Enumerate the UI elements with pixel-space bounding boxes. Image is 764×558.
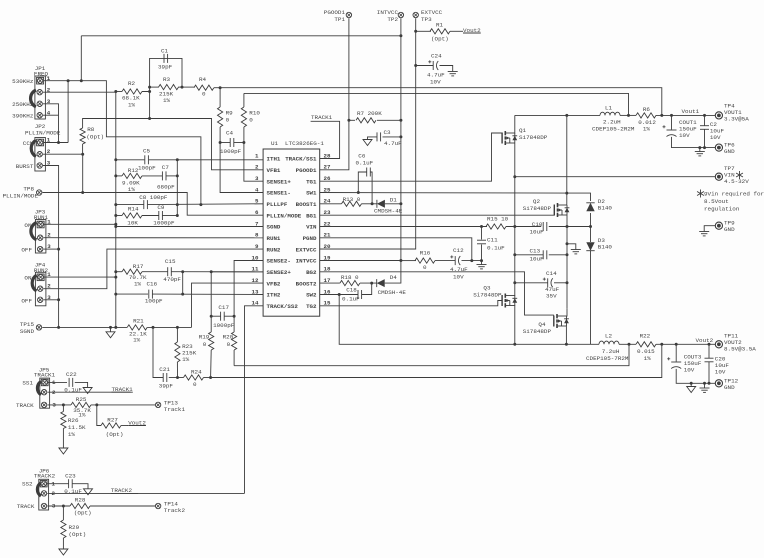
svg-text:C21: C21 [159, 366, 170, 373]
sense wire 1 channel 2 [234, 344, 629, 365]
svg-text:R1: R1 [436, 22, 444, 29]
svg-text:GND: GND [724, 226, 735, 233]
svg-text:TP8: TP8 [23, 186, 34, 193]
svg-text:100pF: 100pF [145, 298, 163, 305]
junction R9 C4 left [219, 141, 222, 144]
junction R2 R3 C1 lower [148, 90, 151, 93]
svg-text:TRACK/SS2: TRACK/SS2 [267, 303, 299, 310]
wire JP6 pin3 row left [47, 505, 70, 507]
wire ground stem at output 1 [699, 148, 701, 152]
JP4 pin 3 circle [38, 297, 43, 302]
svg-text:0: 0 [202, 91, 206, 98]
wire JP3 pin3 off [44, 248, 59, 250]
wire C20 bottom [708, 362, 710, 383]
JP6 shunt bar pins 1-2 [37, 483, 41, 496]
wire C11 top [481, 227, 483, 240]
wire JP1 pin1 row [44, 81, 201, 204]
resistor R17 [122, 269, 142, 274]
wire SGND pin 7 row [116, 226, 263, 228]
svg-text:CCM: CCM [23, 140, 34, 147]
JP2 pin 2 circle [37, 152, 42, 157]
wire R27 right [121, 425, 128, 427]
wire C4 SENSE1+ down [244, 143, 263, 182]
wire SW2 down from pin16 [339, 295, 599, 345]
wire Q4 drain down [565, 326, 567, 344]
wire JP1 pin2 row [43, 91, 116, 93]
junction output2 gnd bar [703, 382, 706, 385]
junction rail C16 [114, 293, 117, 296]
JP2 pin 3 circle [37, 163, 42, 168]
wire SGND rail [115, 92, 117, 328]
wire R23 bottom [176, 362, 178, 378]
svg-text:C9: C9 [157, 204, 165, 211]
svg-text:R16: R16 [420, 250, 431, 257]
wire R17 to C15 [142, 271, 168, 273]
wire TG1 pin 26 to Q1 gate [320, 133, 503, 181]
wire C7 right [166, 175, 177, 177]
wire JP5 pin3 row right [91, 404, 155, 406]
ground at C24 [448, 71, 458, 73]
JP3 pin 3 circle [38, 246, 43, 251]
wire Q3 source down [514, 306, 516, 345]
junction C18 R18 D4 [370, 282, 373, 285]
wire JP2 pin1 row [44, 142, 69, 144]
junction D1 INTVCC [399, 202, 402, 205]
wire JP2 pin2 down to TP8 row [82, 154, 84, 192]
svg-text:R13 0: R13 0 [343, 196, 361, 203]
resistor R22 [636, 342, 656, 347]
test point TP11 VOUT2 [715, 341, 722, 348]
svg-text:PLLIN/MODE: PLLIN/MODE [25, 130, 61, 137]
wire R9 bottom to C4 [219, 127, 221, 143]
svg-text:35V: 35V [546, 293, 557, 300]
wire JP5 pin3 row left [48, 404, 72, 406]
junction C11 bottom ground [480, 259, 483, 262]
svg-text:0: 0 [227, 341, 231, 348]
capacitor C3 [376, 132, 378, 141]
svg-text:68.1K: 68.1K [122, 95, 140, 102]
resistor R18 [340, 281, 360, 286]
junction rail C5 [114, 158, 117, 161]
junction TP1 R7 [347, 119, 350, 122]
svg-text:C23: C23 [65, 472, 76, 479]
svg-text:R8: R8 [87, 126, 95, 133]
junction R4 bus R9 [219, 86, 222, 89]
svg-text:PGND: PGND [303, 235, 317, 242]
capacitor C11 [477, 239, 486, 241]
svg-text:0.1uF: 0.1uF [342, 296, 360, 303]
wire Q4 source up to PGND rail [566, 309, 569, 316]
wire C15 right to pin11 [171, 271, 263, 273]
junction R22 sense right [660, 343, 663, 346]
wire EXTVCC pin 20 row [320, 248, 416, 250]
svg-text:GND: GND [724, 384, 735, 391]
JP3 shunt bar pins 1-2 [31, 223, 37, 240]
svg-text:SS2: SS2 [22, 481, 33, 488]
wire SW2 to C18 [339, 294, 358, 296]
wire C13 right [549, 254, 567, 256]
wire Q2 source down [566, 215, 568, 227]
capacitor C14 [547, 278, 549, 287]
wire C23 to gnd [72, 484, 88, 489]
bus wire lower sense [244, 93, 629, 115]
svg-text:390KHz: 390KHz [12, 113, 34, 120]
svg-text:PLLLPF: PLLLPF [267, 201, 288, 208]
svg-text:1%: 1% [644, 355, 652, 362]
svg-text:B140: B140 [598, 244, 613, 251]
svg-text:SW1: SW1 [306, 190, 317, 197]
wire C3 right [383, 136, 401, 138]
svg-text:10V: 10V [679, 132, 690, 139]
junction rail R14 [114, 214, 117, 217]
resistor R25 [71, 402, 91, 407]
junction PGND C12 [470, 259, 473, 262]
wire TP8 row to pin 6 [43, 193, 264, 216]
svg-text:R26: R26 [68, 417, 79, 424]
wire SENSE2+ row [211, 272, 263, 316]
capacitor C16 [148, 290, 150, 299]
wire VIN rail to Q3 [514, 227, 516, 289]
wire C14 right [554, 282, 567, 284]
ground at PGND rail [571, 249, 581, 251]
junction COUT1 top [670, 114, 673, 117]
svg-text:SENSE2+: SENSE2+ [267, 269, 292, 276]
wire INTVCC pin 19 row [320, 260, 401, 262]
wire R15 to VIN rail [506, 226, 541, 228]
wire SW1 node to L1 [515, 114, 600, 116]
wire R19 to sense line 2 [210, 350, 213, 378]
wire JP4 pin2 to RUN2 [44, 249, 264, 289]
svg-text:9Vin required for: 9Vin required for [704, 191, 764, 198]
wire C14 left [515, 282, 548, 284]
svg-text:CDEP105-7R2M: CDEP105-7R2M [586, 355, 629, 362]
svg-text:1000pF: 1000pF [153, 220, 175, 227]
wire C17 right [224, 315, 234, 317]
svg-text:BG2: BG2 [306, 269, 317, 276]
capacitor C4 [229, 138, 231, 147]
wire JP4 pin1 row [44, 276, 116, 278]
junction R7 INTVCC [399, 119, 402, 122]
junction C20 top [708, 343, 711, 346]
svg-text:BG1: BG1 [306, 212, 317, 219]
JP5 pin 1 circle [42, 380, 47, 385]
wire C17 left [211, 315, 220, 317]
capacitor C13 [542, 250, 544, 259]
wire TP2 INTVCC vertical [400, 18, 402, 260]
test point TP1 PGOOD1 [346, 12, 351, 17]
svg-text:10V: 10V [684, 367, 695, 374]
ground at COUT1 [695, 151, 705, 153]
wire JP1pin2 to R2 [116, 91, 122, 93]
svg-text:ON: ON [24, 275, 32, 282]
svg-text:(Opt): (Opt) [86, 134, 104, 141]
diode D3 B140 [586, 242, 594, 250]
JP1 pin 3 circle [37, 101, 42, 106]
wire ITH1 row [116, 159, 145, 161]
svg-text:TG1: TG1 [306, 178, 317, 185]
wire INTVCC to JP1 area top run [81, 35, 401, 37]
svg-text:TRACK2: TRACK2 [111, 487, 133, 494]
wire C20 stem [708, 344, 710, 358]
wire C21 right [169, 377, 178, 379]
junction BURST JP3 off [57, 248, 60, 251]
capacitor C15 [167, 267, 169, 276]
svg-text:R22: R22 [640, 333, 651, 340]
resistor R10 [241, 107, 246, 127]
wire R13 to D1 [362, 203, 377, 205]
svg-text:1%: 1% [78, 412, 86, 419]
wire D4 to INTVCC row [385, 261, 401, 284]
wire R2 to junction [142, 87, 150, 91]
test point TP12 GND [715, 380, 722, 387]
junction C13 PGND [566, 253, 569, 256]
svg-text:C15: C15 [165, 258, 176, 265]
resistor R27 [101, 423, 121, 428]
svg-text:regulation: regulation [704, 206, 740, 213]
ground triangle at R29 [59, 549, 68, 555]
wire BG1 pin 23 to Q2 gate [320, 214, 555, 216]
junction Q3 SW2 row [513, 343, 516, 346]
svg-text:0: 0 [226, 117, 230, 124]
wire BG2 pin 18 to Q4 gate [320, 272, 554, 315]
svg-text:R18 0: R18 0 [341, 274, 359, 281]
connector JP4 RUN2 body [35, 272, 46, 306]
junction output1 gnd [698, 146, 701, 149]
junction VFB1 divider tap [148, 117, 151, 120]
wire R19 top lead [210, 316, 212, 332]
junction rail R2 JP1pin2 [114, 90, 117, 93]
JP5 pin 2 circle [41, 390, 46, 395]
svg-text:C11: C11 [487, 237, 498, 244]
svg-text:1: 1 [47, 218, 51, 225]
svg-text:0.015: 0.015 [637, 348, 655, 355]
resistor R12 [122, 173, 142, 178]
junction rail TP15 row [114, 326, 117, 329]
svg-text:Si7848DP: Si7848DP [473, 291, 502, 298]
svg-text:R7 200K: R7 200K [357, 110, 382, 117]
wire Q1 drain up to SW wire [514, 115, 516, 133]
wire L2 row right part [598, 343, 600, 345]
capacitor C7 [161, 171, 163, 180]
wire C6 to BOOST1 [370, 172, 372, 204]
JP1 shunt bar pins 2-3 [31, 90, 36, 107]
svg-text:R15 10: R15 10 [487, 216, 509, 223]
wire ground stem at C11 [481, 261, 483, 265]
svg-text:R24: R24 [191, 369, 202, 376]
resistor R29 [61, 520, 66, 538]
wire C2 stem [704, 115, 706, 125]
svg-text:PGOOD1: PGOOD1 [296, 167, 317, 174]
wire C8 right to pin5 [148, 203, 263, 206]
svg-text:ITH2: ITH2 [267, 292, 281, 299]
wire JP1 pin3 row [43, 104, 59, 143]
ground triangle at C22 [83, 388, 92, 394]
svg-text:4.7uF: 4.7uF [450, 266, 468, 273]
junction C17 R20 [233, 315, 236, 318]
capacitor COUT3 [671, 361, 681, 363]
wire C5 right to pin 1 [149, 159, 263, 161]
JP2 pin 1 circle [37, 140, 42, 145]
svg-text:TRACK: TRACK [16, 402, 34, 409]
wire JP2 pin2 row [43, 153, 83, 155]
svg-text:Track1: Track1 [164, 406, 186, 413]
junction SW2 C18 [338, 293, 341, 296]
junction VIN rail row [513, 225, 516, 228]
test point TP9 GND [715, 222, 722, 229]
wire INTVCC to R16 [401, 260, 416, 262]
wire R20 top lead [233, 316, 235, 332]
junction C2 ground row [703, 146, 706, 149]
resistor R20 [232, 332, 237, 350]
junction JP1 pin1 CCM tie [67, 79, 70, 82]
test point TP2 INTVCC [398, 12, 403, 17]
svg-text:CMDSH-4E: CMDSH-4E [378, 289, 407, 296]
connector JP6 TRACK2 body [39, 479, 49, 510]
svg-text:TP3: TP3 [421, 16, 432, 23]
wire JP3 pin1 row [44, 223, 116, 225]
wire R29 bottom [62, 538, 64, 549]
svg-text:R29: R29 [69, 524, 80, 531]
svg-text:ITH1: ITH1 [267, 156, 281, 163]
wire JP3 pin2 to RUN1 [44, 237, 264, 239]
wire R3 to R4 [178, 86, 194, 88]
junction INTVCC top wire [399, 34, 402, 37]
wire R17 row [116, 271, 122, 273]
junction sgnd tri [109, 326, 112, 329]
JP3 pin 1 square pad [37, 221, 44, 228]
junction C2 top [703, 114, 706, 117]
svg-text:OFF: OFF [21, 247, 32, 254]
junction D2 D3 row [589, 225, 592, 228]
inductor L2 [599, 341, 619, 344]
wire BOOST2 pin 17 row [320, 282, 340, 284]
svg-text:0: 0 [203, 341, 207, 348]
wire L2 to R22 [619, 343, 636, 345]
junction C9 comp rail [176, 214, 179, 217]
svg-text:R6: R6 [643, 106, 651, 113]
svg-text:R10: R10 [249, 110, 260, 117]
wire C18 to BOOST2 [362, 283, 372, 294]
wire comp rail 2 [182, 272, 184, 294]
transistor Q4 Si7848DP [554, 314, 569, 328]
junction TP8 row [81, 191, 84, 194]
svg-text:RUN1: RUN1 [267, 235, 281, 242]
connector JP1 FREQ body [35, 76, 46, 119]
JP4 pin 1 square pad [37, 274, 44, 281]
wire TP3 EXTVCC vertical [320, 18, 416, 249]
svg-text:1%: 1% [643, 126, 651, 133]
svg-text:TP15: TP15 [20, 321, 35, 328]
JP6 pin 2 circle [41, 491, 46, 496]
test point TP3 EXTVCC [413, 12, 418, 17]
test point TP6 GND [715, 144, 722, 151]
junction COUT3 top [675, 343, 678, 346]
wire C22 to gnd [75, 382, 88, 387]
op-amp U1 LTC3826EG-1 IC body [263, 149, 320, 316]
wire R9 top [219, 88, 221, 107]
ground triangle at COUT3 [687, 387, 696, 393]
wire C2 bottom [704, 130, 706, 148]
svg-text:0: 0 [249, 117, 253, 124]
junction VIN rail C14 [513, 281, 516, 284]
wire SW1 row to D2 [567, 193, 591, 201]
wire R29 top [62, 506, 64, 520]
wire SW1 pin 25 row [320, 192, 567, 195]
junction C6 R13 D1 [371, 202, 374, 205]
svg-text:D1: D1 [390, 197, 398, 204]
wire TG2 pin 15 to Q3 gate [320, 301, 503, 306]
svg-text:TRACK1: TRACK1 [311, 114, 333, 121]
junction output2 gnd tri [690, 382, 693, 385]
junction JP3 pin1 rail [114, 223, 117, 226]
resistor R9 [218, 107, 223, 127]
svg-text:1%: 1% [163, 97, 171, 104]
svg-text:1%: 1% [68, 431, 76, 438]
capacitor C5 [144, 155, 146, 164]
wire R22 to TP11 [656, 343, 715, 345]
junction C3 INTVCC [399, 135, 402, 138]
junction Q4 SW2 row [565, 343, 568, 346]
junction R6 sense right [660, 114, 663, 117]
svg-text:4.7uF: 4.7uF [384, 140, 402, 147]
svg-text:SW2: SW2 [306, 292, 317, 299]
wire C1 loop [150, 58, 182, 87]
svg-text:R25: R25 [76, 396, 87, 403]
capacitor C20 [705, 357, 714, 359]
svg-text:L2: L2 [605, 333, 613, 340]
JP6 pin 1 circle [41, 481, 46, 486]
wire ITH2 row [116, 293, 148, 295]
svg-text:Si7848DP: Si7848DP [523, 205, 552, 212]
resistor R1 [430, 29, 450, 34]
junction PGND rail VIN row [566, 225, 569, 228]
wire JP1 pin1 tie down [67, 81, 69, 143]
wire R10 bottom [243, 127, 245, 143]
wire C21 left of R24 [178, 377, 184, 379]
junction SENSE2+ R19 [210, 270, 213, 273]
svg-text:R27: R27 [107, 417, 118, 424]
wire JP5 pin1 to C22 [48, 381, 67, 383]
wire SW branch down to Q2 [566, 115, 568, 205]
capacitor C23 [68, 479, 70, 488]
wire COUT1 stem [671, 115, 673, 129]
wire gnd triangle stem output2 [690, 383, 692, 386]
svg-text:C3: C3 [384, 129, 392, 136]
svg-text:C16: C16 [147, 281, 158, 288]
svg-text:EXTVCC: EXTVCC [296, 246, 317, 253]
svg-text:LTC3826EG-1: LTC3826EG-1 [285, 140, 324, 147]
test point TP15 SGND [36, 325, 41, 330]
wire R7 left [349, 119, 355, 121]
transistor Q3 Si7848DP [502, 294, 517, 308]
test point TP8 PLLIN/MODE [37, 190, 42, 195]
junction R10 C4 right [242, 141, 245, 144]
svg-text:100pF: 100pF [138, 165, 156, 172]
wire R8 bottom [82, 144, 84, 154]
transistor Q1 Si7848DP [502, 131, 517, 145]
svg-text:R28: R28 [75, 497, 86, 504]
capacitor C10 [542, 222, 544, 231]
svg-text:Vout1: Vout1 [682, 108, 700, 115]
svg-text:1: 1 [255, 152, 259, 159]
JP1 pin 4 circle [37, 113, 42, 118]
wire PGND ground stub [567, 244, 576, 250]
junction rail C8 [114, 203, 117, 206]
wire sgnd triangle stem [110, 327, 112, 331]
svg-text:C14: C14 [546, 270, 557, 277]
junction SW1 row Q2 drain [565, 192, 568, 195]
svg-text:SGND: SGND [20, 328, 35, 335]
